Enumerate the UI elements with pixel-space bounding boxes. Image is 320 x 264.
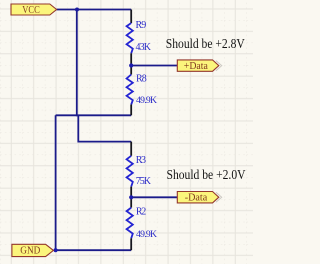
svg-text:R9: R9 — [136, 20, 147, 31]
wire -Data — [131, 196, 177, 198]
svg-text:Should be +2.0V: Should be +2.0V — [167, 167, 246, 182]
junction +Data node — [129, 63, 133, 67]
wire R8 bottom to GND branch — [56, 114, 132, 116]
port VCC — [11, 4, 57, 16]
svg-text:VCC: VCC — [22, 5, 40, 16]
svg-text:-Data: -Data — [185, 193, 208, 204]
svg-text:R8: R8 — [136, 73, 147, 84]
junction -Data node — [129, 195, 133, 199]
resistor R3 — [127, 142, 133, 198]
wire GND vertical — [55, 115, 57, 250]
resistor R8 — [127, 66, 133, 116]
wire GND rail bottom — [56, 249, 132, 251]
wire VCC drop to R3 feed — [76, 10, 78, 117]
junction GND rail — [54, 248, 58, 252]
port GND — [12, 244, 54, 256]
port -Data — [177, 192, 221, 204]
wire VCC drop lower jog — [78, 115, 131, 142]
svg-text:49.9K: 49.9K — [136, 229, 157, 240]
resistor R2 — [127, 197, 133, 250]
svg-text:GND: GND — [20, 245, 40, 256]
svg-text:R3: R3 — [136, 155, 146, 166]
svg-text:75K: 75K — [136, 176, 152, 187]
junction VCC rail — [75, 8, 79, 12]
svg-text:43K: 43K — [136, 42, 152, 53]
svg-text:R2: R2 — [136, 207, 146, 218]
svg-text:49.9K: 49.9K — [136, 95, 157, 106]
resistor R9 — [127, 10, 133, 66]
wire +Data — [131, 65, 177, 67]
wire VCC rail top — [57, 9, 132, 11]
svg-text:Should be +2.8V: Should be +2.8V — [166, 36, 245, 51]
svg-text:+Data: +Data — [184, 61, 209, 72]
port +Data — [177, 60, 221, 72]
